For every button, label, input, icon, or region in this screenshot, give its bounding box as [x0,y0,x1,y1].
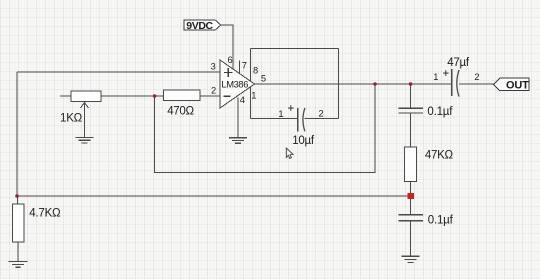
svg-text:47KΩ: 47KΩ [425,150,454,162]
svg-text:5: 5 [261,74,266,84]
svg-text:1KΩ: 1KΩ [60,112,83,124]
ground (bottom right) [402,256,420,262]
wire 470 to pin 2 [200,95,220,97]
svg-text:4: 4 [240,95,245,105]
resistor 47KΩ [405,147,417,182]
wire bottom horizontal [17,195,408,197]
node junction output/branch [409,82,413,86]
svg-text:1: 1 [278,109,283,119]
ground (op-amp pin 4) [229,138,247,144]
port flag OUT [494,78,530,91]
svg-text:9VDC: 9VDC [186,20,213,32]
svg-text:2: 2 [211,86,216,96]
ground (bottom left) [9,261,28,267]
wire 4.7K bottom lead [17,242,19,261]
wire 47K to junction [410,182,412,197]
wire pot left lead [60,95,71,97]
wire 47uf to OUT flag [459,83,494,85]
wire bypass box bottom left [251,118,298,120]
svg-text:2: 2 [474,72,479,82]
svg-text:1: 1 [433,72,438,82]
svg-text:47µf: 47µf [447,57,470,69]
cursor [286,148,293,158]
power flag 9VDC [184,20,221,32]
svg-text:LM386: LM386 [221,78,248,89]
wire pot to 470 [101,95,164,97]
wire bottom 0.1uf to ground [410,221,412,257]
svg-text:+: + [443,68,450,80]
potentiometer 1KΩ [71,91,101,108]
svg-text:2: 2 [319,109,324,119]
wire bypass box right [338,48,340,118]
wire input top to pin 3 [17,71,220,73]
wire junction to bottom 0.1uf [410,196,412,215]
svg-text:0.1µf: 0.1µf [427,106,453,118]
svg-text:4.7KΩ: 4.7KΩ [29,208,61,220]
capacitor 10µf [278,103,323,132]
svg-text:1: 1 [251,91,256,101]
node junction feedback/output [373,82,377,86]
wire left vertical [16,72,18,196]
svg-text:+: + [288,103,295,115]
wire 4.7K top lead [17,196,19,204]
svg-text:OUT: OUT [506,79,529,91]
node red square junction [408,193,414,199]
capacitor 0.1µf lower [398,215,423,221]
svg-text:8: 8 [253,66,258,76]
wire feedback loop [155,84,375,173]
resistor 4.7KΩ [12,204,23,242]
svg-text:470Ω: 470Ω [167,105,194,117]
wire 9VDC to pin 6 [221,25,233,70]
wire bypass box top [251,47,339,49]
node junction pot/470 [153,94,157,98]
capacitor 0.1µf upper [398,108,423,113]
wire 0.1uf to 47K [410,113,412,147]
wire bypass box left [250,48,252,118]
ground (pot wiper) [76,138,94,144]
capacitor 47µf [433,68,479,97]
op-amp U1 LM386 [220,60,255,108]
wire bypass box bottom right [305,118,339,120]
svg-text:10µf: 10µf [292,135,315,147]
svg-text:6: 6 [228,55,233,65]
wire pin 4 stub [237,98,239,138]
wire output pin 5 to 47uf [255,83,452,85]
wire pot wiper to ground [84,104,86,138]
wire junction down to 0.1uf [410,84,412,108]
svg-text:7: 7 [242,60,247,70]
resistor 470Ω [164,90,200,100]
wire pin 7 stub [238,61,240,74]
svg-text:3: 3 [211,61,216,71]
node junction left bottom [15,194,19,198]
svg-text:0.1µf: 0.1µf [428,215,454,227]
